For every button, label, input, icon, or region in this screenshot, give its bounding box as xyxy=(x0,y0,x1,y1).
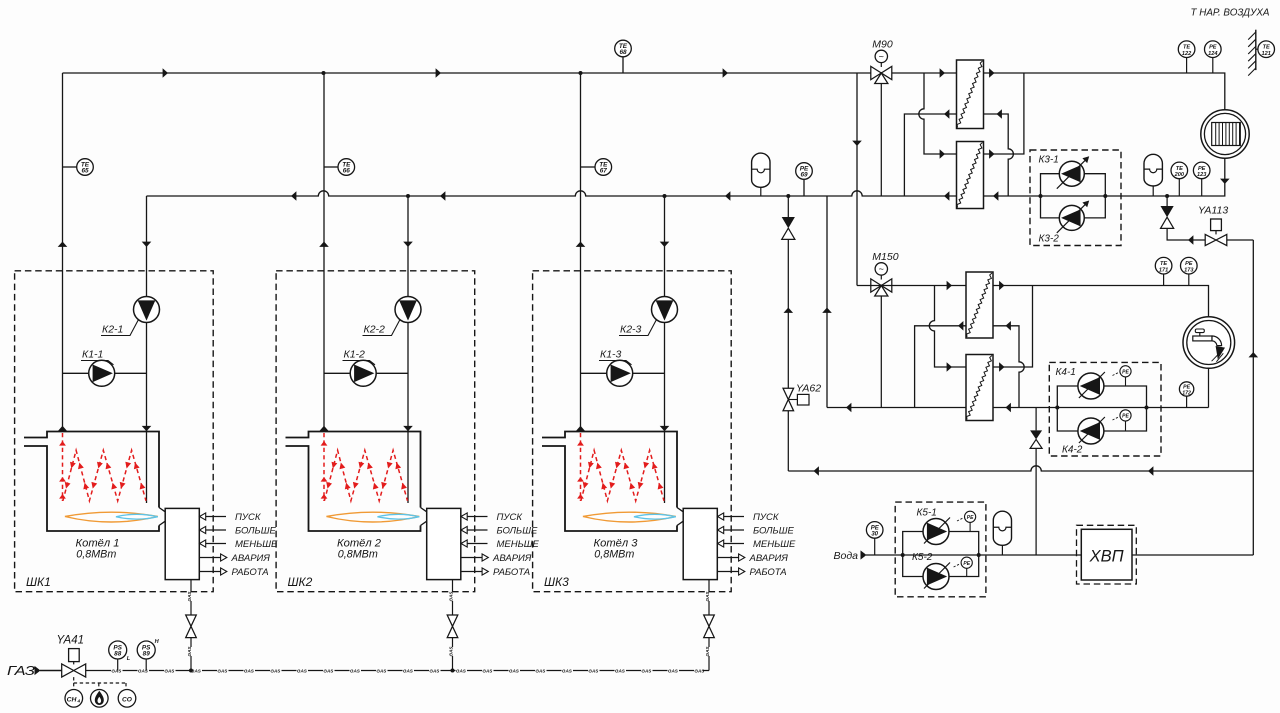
svg-text:YA62: YA62 xyxy=(796,383,821,395)
wire tap to DHW return xyxy=(1208,368,1210,408)
pump K4-1 xyxy=(1078,372,1105,399)
svg-text:БОЛЬШЕ: БОЛЬШЕ xyxy=(497,526,538,537)
boiler 2 control signal РАБОТА xyxy=(461,567,530,578)
wire HX1 bottom-left to return xyxy=(904,109,956,196)
boiler 3 control signal БОЛЬШЕ xyxy=(718,526,795,537)
svg-text:К3-2: К3-2 xyxy=(1039,234,1060,245)
svg-text:PE: PE xyxy=(1198,166,1206,172)
svg-text:АВАРИЯ: АВАРИЯ xyxy=(749,553,789,564)
water treatment unit KhVP xyxy=(1077,525,1137,584)
water inlet arrow xyxy=(861,550,867,559)
svg-text:БОЛЬШЕ: БОЛЬШЕ xyxy=(753,526,794,537)
junction dots on supply main xyxy=(322,71,583,75)
svg-text:66: 66 xyxy=(343,168,351,175)
svg-text:К1-2: К1-2 xyxy=(344,349,366,361)
boiler 1 name label xyxy=(76,537,120,560)
wire gas main with GAS line-type xyxy=(86,668,709,673)
gas analyzer CO xyxy=(118,690,136,708)
pump K3-2 label xyxy=(1039,234,1060,245)
svg-text:ШК3: ШК3 xyxy=(544,575,569,589)
boiler 1 control signal АВАРИЯ xyxy=(199,553,270,564)
pump K1-1 label xyxy=(81,349,114,365)
boiler 1 control signal МЕНЬШЕ xyxy=(200,539,279,550)
sensor PE124 xyxy=(1205,41,1222,73)
svg-text:ПУСК: ПУСК xyxy=(497,512,524,523)
pump K4-2 xyxy=(1078,417,1105,444)
svg-text:0,8МВт: 0,8МВт xyxy=(338,549,378,561)
sensor PS89 high xyxy=(137,639,159,671)
sensor PE69 xyxy=(796,163,813,196)
svg-text:GAS: GAS xyxy=(350,668,361,673)
radiator return flow arrow xyxy=(1220,179,1230,184)
svg-text:К4-1: К4-1 xyxy=(1056,367,1076,378)
svg-text:YA41: YA41 xyxy=(57,635,85,647)
boiler 3 burner control box xyxy=(683,508,717,579)
svg-text:ГАЗ: ГАЗ xyxy=(7,664,35,678)
svg-text:GAS: GAS xyxy=(509,668,520,673)
pump K5-2 xyxy=(923,563,950,590)
sensor TE67 xyxy=(581,159,612,176)
expansion vessel on return main xyxy=(752,153,770,196)
svg-text:CO: CO xyxy=(122,696,133,703)
wall with hatching xyxy=(1248,30,1256,76)
sensor TE68 xyxy=(615,40,632,73)
svg-text:К1-1: К1-1 xyxy=(82,349,103,361)
wire supply main header xyxy=(63,73,1225,110)
second return arrows xyxy=(814,466,1154,476)
pump K3-2 xyxy=(1057,201,1089,233)
svg-text:К5-1: К5-1 xyxy=(917,508,937,519)
svg-text:Котёл 1: Котёл 1 xyxy=(76,537,120,549)
gas inlet arrow xyxy=(35,666,41,675)
svg-text:GAS: GAS xyxy=(297,668,308,673)
svg-text:L: L xyxy=(127,656,131,662)
pump K1-2 xyxy=(350,360,376,386)
boiler 2 burner mouth xyxy=(421,508,427,526)
boiler 1 control signal РАБОТА xyxy=(199,567,268,578)
boiler 3 control signal АВАРИЯ xyxy=(717,553,788,564)
wire HX2 top-right to supply xyxy=(984,73,1024,159)
boiler 1 control signal БОЛЬШЕ xyxy=(200,526,277,537)
svg-text:GAS: GAS xyxy=(456,668,467,673)
valve YA41 xyxy=(57,635,86,678)
svg-text:88: 88 xyxy=(114,651,122,658)
svg-text:GAS: GAS xyxy=(694,668,705,673)
svg-text:ПУСК: ПУСК xyxy=(753,512,780,523)
wire DHW primary supply xyxy=(857,286,1209,318)
svg-text:GAS: GAS xyxy=(449,646,454,657)
sensor PE173 xyxy=(1181,257,1198,285)
pump K3-1 xyxy=(1057,156,1089,188)
check valve on DHW makeup xyxy=(1030,408,1042,556)
svg-text:GAS: GAS xyxy=(482,668,493,673)
svg-text:К3-1: К3-1 xyxy=(1039,155,1059,166)
wire supply drop to HX4 xyxy=(929,286,966,372)
boiler 2 control signal МЕНЬШЕ xyxy=(461,539,540,550)
solenoid valve YA113 xyxy=(1198,205,1228,246)
hot water tap (GVS consumers) xyxy=(1183,317,1235,369)
check valve and feed to heating return xyxy=(1161,196,1206,245)
junction dots on return main xyxy=(406,194,1169,198)
sensor TE171 xyxy=(1155,257,1172,285)
boiler 3 gas riser xyxy=(708,580,710,671)
svg-text:ХВП: ХВП xyxy=(1089,548,1124,566)
sensor TE66 xyxy=(324,159,355,176)
svg-text:172: 172 xyxy=(1182,391,1191,397)
boiler 3 red arrows on coil xyxy=(581,462,663,490)
boiler 1 supply riser xyxy=(62,73,64,432)
boiler 2 red arrows on coil xyxy=(325,462,407,490)
pump K1-2 label xyxy=(343,349,376,365)
sensor TE200 xyxy=(1171,162,1188,196)
svg-text:GAS: GAS xyxy=(535,668,546,673)
svg-text:PE: PE xyxy=(1122,414,1129,420)
svg-text:АВАРИЯ: АВАРИЯ xyxy=(492,553,532,564)
wire gas inlet to valve YA41 xyxy=(40,670,62,672)
boiler 1 bypass wire xyxy=(63,372,147,374)
svg-text:PE: PE xyxy=(967,515,974,521)
boiler 1 burner control box xyxy=(165,508,199,579)
boiler 3 gas riser GAS labels xyxy=(705,591,710,657)
wire HX3 bottom-right loop xyxy=(993,321,1024,408)
boiler 2 riser flow arrows xyxy=(319,242,413,432)
boiler 1 body with flue and burner opening xyxy=(24,432,159,532)
wire M90 mixing stem to return xyxy=(880,84,882,197)
boiler 1 burner flame core (blue) xyxy=(116,514,158,519)
boiler 2 supply riser xyxy=(323,73,325,432)
cabinet label ShK2 xyxy=(288,575,313,589)
svg-text:89: 89 xyxy=(143,651,151,658)
boiler 2 burner flame (orange) xyxy=(326,512,419,522)
svg-text:GAS: GAS xyxy=(217,668,228,673)
svg-text:GAS: GAS xyxy=(668,668,679,673)
boiler 1 internal hot pipe (red dashed) xyxy=(62,433,64,501)
svg-text:171: 171 xyxy=(1159,267,1168,273)
pump K2-2 xyxy=(395,297,421,323)
wire YA113 to makeup riser xyxy=(1227,239,1254,241)
svg-text:0,8МВт: 0,8МВт xyxy=(594,549,634,561)
svg-text:200: 200 xyxy=(1174,172,1185,178)
svg-text:GAS: GAS xyxy=(138,668,149,673)
svg-text:БОЛЬШЕ: БОЛЬШЕ xyxy=(235,526,276,537)
pump group K5 branch wires xyxy=(901,532,981,577)
boiler 3 internal hot pipe (red dashed) xyxy=(580,433,582,501)
boiler 1 heating coil zigzag (red) xyxy=(63,450,146,501)
boiler 1 gas shutoff valve xyxy=(186,615,197,638)
svg-text:GAS: GAS xyxy=(449,591,454,602)
svg-text:PE: PE xyxy=(1122,370,1129,376)
svg-text:К1-3: К1-3 xyxy=(600,349,622,361)
svg-text:GAS: GAS xyxy=(244,668,255,673)
svg-text:РАБОТА: РАБОТА xyxy=(232,567,269,578)
pump K2-2 label xyxy=(363,320,401,336)
boiler 2 name label xyxy=(337,537,382,560)
motor valve M90 xyxy=(871,39,893,84)
svg-text:124: 124 xyxy=(1208,51,1218,57)
heat exchanger HX4 xyxy=(966,355,993,421)
motor valve M150 xyxy=(871,251,899,296)
svg-text:PE: PE xyxy=(1185,261,1193,267)
heat exchanger HX1 xyxy=(957,60,984,129)
expansion vessel water line xyxy=(993,511,1011,555)
boiler 1 return drop xyxy=(146,196,148,503)
pump K5-2 label xyxy=(912,552,933,563)
pump group K5 dashed box xyxy=(895,502,986,597)
gas inlet label GAZ xyxy=(7,664,35,678)
svg-text:Котёл 2: Котёл 2 xyxy=(337,537,382,549)
svg-text:GAS: GAS xyxy=(562,668,573,673)
boiler 1 riser flow arrows xyxy=(58,242,152,432)
svg-text:TE: TE xyxy=(1263,45,1270,51)
boiler 1 burner flame (orange) xyxy=(65,512,158,522)
sensor PE30 xyxy=(866,522,883,555)
svg-text:TE: TE xyxy=(1183,45,1190,51)
svg-text:0,8МВт: 0,8МВт xyxy=(76,549,116,561)
svg-text:МЕНЬШЕ: МЕНЬШЕ xyxy=(235,539,278,550)
pump K3-1 label xyxy=(1039,155,1059,166)
pump group K4 dashed box xyxy=(1049,362,1161,456)
cabinet label ShK3 xyxy=(544,575,569,589)
svg-text:CH: CH xyxy=(67,696,78,703)
boiler 2 control signal АВАРИЯ xyxy=(461,553,532,564)
boiler 1 gas riser xyxy=(190,580,192,671)
sensor PS88 low xyxy=(109,641,131,671)
pump group K3 branch wires xyxy=(1039,174,1108,218)
expansion vessel heating circuit xyxy=(1144,154,1162,196)
boiler 3 supply riser xyxy=(580,73,582,432)
boiler 1 dashed cabinet box ShK1 xyxy=(15,271,214,592)
DHW primary supply arrows xyxy=(947,281,1005,291)
svg-text:GAS: GAS xyxy=(187,591,192,602)
pump K4-1 label xyxy=(1056,367,1076,378)
pump K2-1 xyxy=(134,297,160,323)
pump K2-3 xyxy=(652,297,678,323)
svg-text:GAS: GAS xyxy=(615,668,626,673)
boiler 2 gas shutoff valve xyxy=(447,615,458,638)
boiler 1 control signal ПУСК xyxy=(200,512,262,523)
svg-text:YA113: YA113 xyxy=(1198,205,1228,217)
wire supply to M150 drop xyxy=(852,73,862,286)
boiler 3 burner flame core (blue) xyxy=(634,514,676,519)
DHW secondary return arrows xyxy=(846,403,1011,413)
boiler 2 return drop xyxy=(407,196,409,503)
sensor PE123 xyxy=(1193,162,1210,196)
boiler 3 dashed cabinet box ShK3 xyxy=(533,271,732,592)
boiler 3 return drop xyxy=(664,196,666,503)
boiler 2 gas riser GAS labels xyxy=(449,591,454,657)
svg-text:PE: PE xyxy=(963,561,970,567)
sensor TE122 xyxy=(1178,41,1195,73)
wire DHW secondary return xyxy=(827,407,1209,409)
pump K5-1 xyxy=(923,518,950,545)
svg-text:PE: PE xyxy=(1209,45,1217,51)
flow arrows on return main xyxy=(291,191,998,201)
svg-text:GAS: GAS xyxy=(111,668,122,673)
boiler 2 control signal БОЛЬШЕ xyxy=(461,526,538,537)
boiler 2 body with flue and burner opening xyxy=(286,432,421,532)
heat exchanger HX2 xyxy=(957,142,984,209)
radiator heating system symbol xyxy=(1201,110,1249,158)
wire DHW secondary up to return main xyxy=(822,196,832,408)
pump K1-3 xyxy=(607,360,633,386)
svg-text:Т НАР. ВОЗДУХА: Т НАР. ВОЗДУХА xyxy=(1191,7,1270,19)
boiler 3 control signal ПУСК xyxy=(718,512,780,523)
svg-text:69: 69 xyxy=(800,172,808,179)
svg-text:121: 121 xyxy=(1262,51,1271,57)
svg-text:ШК2: ШК2 xyxy=(288,575,313,589)
flow arrows on supply main xyxy=(163,68,995,78)
boiler 3 bypass wire xyxy=(581,372,665,374)
svg-text:GAS: GAS xyxy=(705,646,710,657)
wire return main right section to radiator xyxy=(984,158,1225,196)
svg-text:РАБОТА: РАБОТА xyxy=(750,567,787,578)
svg-text:M150: M150 xyxy=(872,251,898,263)
svg-text:ШК1: ШК1 xyxy=(26,575,51,589)
pump group K4 branch wires xyxy=(1055,386,1148,431)
svg-text:30: 30 xyxy=(871,532,878,538)
boiler 2 burner flame core (blue) xyxy=(377,514,419,519)
svg-text:GAS: GAS xyxy=(705,591,710,602)
svg-text:GAS: GAS xyxy=(641,668,652,673)
svg-text:PE: PE xyxy=(871,525,880,531)
boiler 3 riser flow arrows xyxy=(576,242,670,432)
svg-text:TE: TE xyxy=(1160,261,1167,267)
boiler 2 red flow arrows on internal pipe xyxy=(321,441,328,499)
boiler 3 red flow arrows on internal pipe xyxy=(577,441,584,499)
gas analyzer flame detector xyxy=(91,690,109,708)
svg-text:МЕНЬШЕ: МЕНЬШЕ xyxy=(753,539,796,550)
svg-text:GAS: GAS xyxy=(270,668,281,673)
svg-text:К4-2: К4-2 xyxy=(1062,445,1083,456)
sensor TE121 outdoor xyxy=(1256,41,1275,58)
pump K5-2 pressure sensor PE xyxy=(954,557,973,576)
boiler 1 red arrows on coil xyxy=(63,462,145,490)
boiler 3 gas shutoff valve xyxy=(704,615,715,638)
wire HX3 bottom-left drop xyxy=(915,321,966,408)
svg-text:68: 68 xyxy=(619,49,627,56)
pump K2-3 label xyxy=(619,320,657,336)
pump K1-3 label xyxy=(599,349,632,365)
boiler 1 gas riser GAS labels xyxy=(187,591,192,657)
pump K1-1 xyxy=(89,360,115,386)
svg-text:122: 122 xyxy=(1182,51,1192,57)
svg-text:АВАРИЯ: АВАРИЯ xyxy=(231,553,271,564)
pump K5-1 pressure sensor PE xyxy=(957,511,976,531)
wire HX4 top-right riser xyxy=(993,286,1033,372)
sensor TE65 xyxy=(63,159,94,176)
wire makeup riser right xyxy=(1249,240,1259,555)
svg-text:PE: PE xyxy=(1183,384,1190,390)
svg-text:123: 123 xyxy=(1197,172,1207,178)
svg-text:4: 4 xyxy=(77,699,81,704)
wire M150 mixing stem xyxy=(880,296,882,408)
pump K2-1 label xyxy=(101,320,139,336)
boiler 2 control signal ПУСК xyxy=(461,512,523,523)
boiler 2 heating coil zigzag (red) xyxy=(324,450,407,501)
gas analyzer CH4 xyxy=(65,690,83,708)
boiler 1 burner mouth xyxy=(159,508,165,526)
wire supply drop to HX2 xyxy=(919,73,957,159)
boiler 3 burner flame (orange) xyxy=(583,512,676,522)
svg-text:~: ~ xyxy=(879,264,884,274)
svg-text:GAS: GAS xyxy=(429,668,440,673)
sensor PE172 xyxy=(1179,382,1193,408)
svg-text:M90: M90 xyxy=(872,39,893,51)
pump K4-2 pressure sensor PE xyxy=(1113,410,1132,431)
boiler 2 burner control box xyxy=(427,508,461,579)
boiler 2 bypass wire xyxy=(324,372,408,374)
svg-text:~: ~ xyxy=(879,51,884,61)
boiler 3 body with flue and burner opening xyxy=(542,432,677,532)
svg-text:Котёл 3: Котёл 3 xyxy=(594,537,639,549)
svg-text:65: 65 xyxy=(81,168,89,175)
wire return main header with hops over boiler risers xyxy=(147,191,957,196)
svg-text:К2-1: К2-1 xyxy=(102,324,123,336)
pump group K3 dashed box xyxy=(1030,150,1121,246)
junction dots on gas main xyxy=(189,669,455,673)
wire dashed links to gas analyzers xyxy=(74,677,126,689)
svg-text:Вода: Вода xyxy=(834,550,859,562)
svg-text:GAS: GAS xyxy=(376,668,387,673)
boiler 3 control signal РАБОТА xyxy=(717,567,786,578)
svg-text:К2-3: К2-3 xyxy=(620,324,642,336)
heat exchanger HX3 xyxy=(966,272,993,338)
svg-text:GAS: GAS xyxy=(164,668,175,673)
boiler 3 heating coil zigzag (red) xyxy=(581,450,664,501)
wire second return line xyxy=(788,466,1253,471)
svg-text:67: 67 xyxy=(600,168,608,175)
svg-text:TE: TE xyxy=(1176,166,1183,172)
boiler 2 internal hot pipe (red dashed) xyxy=(323,433,325,501)
boiler 1 red flow arrows on internal pipe xyxy=(59,441,66,499)
svg-text:К2-2: К2-2 xyxy=(364,324,386,336)
pump K4-2 label xyxy=(1062,445,1083,456)
svg-text:GAS: GAS xyxy=(187,646,192,657)
boiler 3 name label xyxy=(594,537,639,560)
wire YA62 riser xyxy=(782,196,795,471)
boiler 3 burner mouth xyxy=(677,508,683,526)
outdoor air label xyxy=(1191,7,1270,19)
svg-text:173: 173 xyxy=(1184,267,1194,273)
boiler 2 gas riser xyxy=(452,580,454,671)
pump K4-1 pressure sensor PE xyxy=(1113,366,1132,386)
svg-text:ПУСК: ПУСК xyxy=(235,512,262,523)
svg-text:GAS: GAS xyxy=(588,668,599,673)
water inlet label xyxy=(834,550,859,562)
solenoid valve YA62 xyxy=(783,383,821,411)
svg-text:К5-2: К5-2 xyxy=(912,552,933,563)
svg-text:GAS: GAS xyxy=(323,668,334,673)
cabinet label ShK1 xyxy=(26,575,51,589)
wire HX1 bottom-right loop xyxy=(984,109,1014,196)
svg-text:РАБОТА: РАБОТА xyxy=(493,567,530,578)
boiler 3 control signal МЕНЬШЕ xyxy=(718,539,797,550)
boiler 2 dashed cabinet box ShK2 xyxy=(276,271,475,592)
wire water line xyxy=(866,554,1253,556)
pump K5-1 label xyxy=(917,508,937,519)
svg-text:GAS: GAS xyxy=(403,668,414,673)
